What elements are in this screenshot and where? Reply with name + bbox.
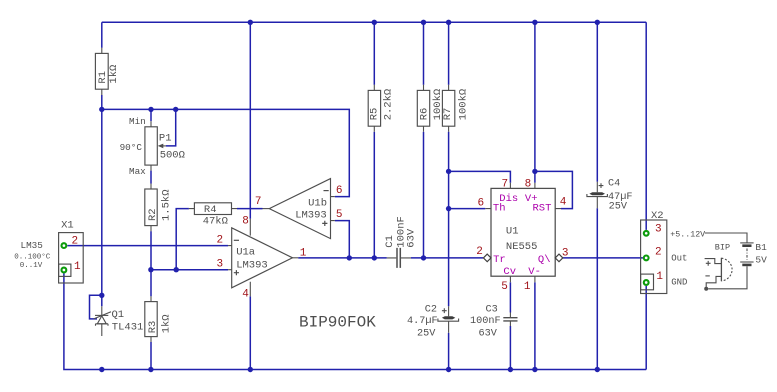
svg-text:R7: R7	[442, 108, 454, 121]
svg-text:4: 4	[242, 289, 249, 301]
svg-text:R6: R6	[418, 108, 430, 121]
svg-text:R4: R4	[204, 204, 217, 216]
svg-text:BIP: BIP	[715, 242, 730, 252]
svg-text:8: 8	[525, 178, 532, 190]
svg-text:7: 7	[502, 178, 509, 190]
svg-text:RST: RST	[533, 203, 552, 215]
svg-text:2: 2	[72, 235, 79, 247]
svg-text:V-: V-	[528, 266, 541, 278]
svg-text:8: 8	[242, 216, 249, 228]
svg-text:3: 3	[217, 258, 224, 270]
svg-text:6: 6	[336, 185, 343, 197]
svg-text:TL431: TL431	[112, 322, 144, 334]
svg-text:Th: Th	[493, 203, 506, 215]
svg-text:C3: C3	[486, 304, 498, 315]
svg-text:90°C: 90°C	[120, 142, 143, 153]
svg-text:LM393: LM393	[236, 260, 268, 272]
svg-text:Min: Min	[129, 116, 146, 127]
svg-text:1: 1	[656, 271, 663, 283]
svg-text:C1: C1	[384, 235, 396, 248]
svg-text:Cv: Cv	[503, 266, 516, 278]
svg-text:+5..12V: +5..12V	[670, 231, 705, 240]
svg-text:U1: U1	[506, 226, 519, 238]
svg-text:100nF: 100nF	[470, 316, 501, 327]
svg-text:0..100°C: 0..100°C	[14, 252, 51, 261]
svg-text:2: 2	[217, 235, 224, 247]
svg-text:25V: 25V	[417, 329, 436, 340]
svg-text:63V: 63V	[479, 329, 498, 340]
svg-text:1: 1	[300, 248, 307, 260]
svg-text:7: 7	[255, 196, 262, 208]
svg-text:0..1V: 0..1V	[20, 262, 43, 270]
svg-text:C2: C2	[425, 304, 437, 315]
svg-text:LM35: LM35	[21, 240, 43, 251]
svg-text:3: 3	[562, 248, 569, 260]
svg-text:C4: C4	[608, 178, 620, 189]
svg-text:X2: X2	[651, 210, 664, 222]
svg-text:Q1: Q1	[112, 309, 125, 321]
svg-text:R3: R3	[147, 321, 159, 334]
svg-text:U1b: U1b	[308, 197, 327, 209]
svg-text:Max: Max	[129, 166, 146, 177]
svg-text:NE555: NE555	[506, 241, 538, 253]
svg-text:5: 5	[336, 209, 343, 221]
svg-text:2: 2	[476, 246, 483, 258]
svg-text:R2: R2	[147, 208, 159, 221]
svg-text:5: 5	[501, 281, 508, 293]
svg-text:4.7µF: 4.7µF	[407, 316, 438, 327]
svg-text:3: 3	[655, 224, 662, 236]
svg-text:Tr: Tr	[493, 254, 506, 266]
svg-text:5V: 5V	[755, 254, 767, 265]
svg-text:1kΩ: 1kΩ	[161, 314, 173, 333]
svg-text:100kΩ: 100kΩ	[458, 89, 470, 121]
svg-text:6: 6	[478, 198, 485, 210]
svg-text:B1: B1	[755, 242, 767, 253]
svg-text:47kΩ: 47kΩ	[203, 216, 228, 228]
svg-text:500Ω: 500Ω	[160, 149, 185, 161]
svg-text:X1: X1	[61, 219, 74, 231]
svg-text:U1a: U1a	[236, 247, 255, 259]
svg-text:Out: Out	[671, 254, 687, 264]
svg-text:GND: GND	[671, 278, 687, 288]
svg-text:1: 1	[524, 281, 531, 293]
svg-text:Q\: Q\	[538, 254, 551, 266]
svg-text:LM393: LM393	[295, 210, 327, 222]
svg-text:1.5kΩ: 1.5kΩ	[161, 189, 173, 221]
svg-text:2.2kΩ: 2.2kΩ	[383, 89, 395, 121]
svg-text:63V: 63V	[406, 228, 418, 248]
svg-text:25V: 25V	[609, 202, 628, 213]
svg-text:R5: R5	[369, 108, 381, 121]
svg-text:BIP90FOK: BIP90FOK	[299, 314, 376, 332]
svg-text:2: 2	[655, 247, 662, 259]
svg-text:4: 4	[560, 196, 567, 208]
svg-text:1kΩ: 1kΩ	[108, 65, 120, 84]
svg-text:1: 1	[74, 261, 81, 273]
svg-text:P1: P1	[159, 132, 172, 144]
